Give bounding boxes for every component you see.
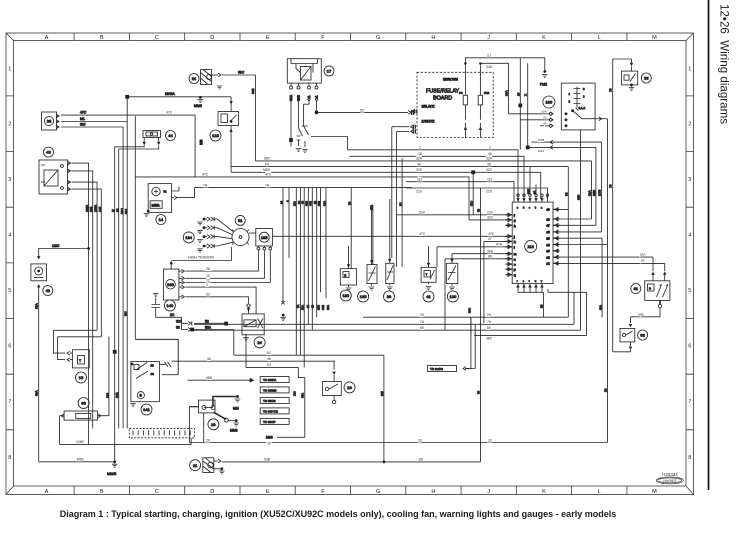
frame left numbers — [8, 67, 11, 462]
component 123 oil pressure switch — [210, 97, 239, 173]
svg-text:T: T — [426, 273, 428, 277]
svg-text:3: 3 — [688, 177, 691, 183]
vertical pack wire 36A — [322, 188, 326, 298]
junction square C2 — [200, 140, 203, 146]
wire from 44 left drop — [115, 145, 145, 147]
vertical wire 32B — [369, 205, 373, 265]
wire 32 row to relay 24 — [186, 293, 249, 304]
svg-text:2: 2 — [583, 95, 585, 99]
wire 32J from 38 — [61, 123, 123, 127]
svg-text:20: 20 — [418, 438, 422, 442]
svg-text:65A: 65A — [301, 393, 305, 398]
svg-text:112: 112 — [528, 244, 535, 249]
oil pressure sender 41 — [421, 246, 436, 302]
svg-text:47B: 47B — [309, 201, 313, 206]
ground MMS — [107, 460, 117, 475]
wire 30E to cluster — [526, 167, 530, 194]
svg-text:112: 112 — [417, 178, 423, 182]
wire 2 row to relay 24 — [186, 283, 257, 314]
svg-text:47: 47 — [488, 237, 492, 241]
svg-text:v: v — [541, 280, 543, 283]
svg-text:69A: 69A — [301, 305, 305, 310]
svg-text:36B: 36B — [321, 305, 325, 310]
svg-text:2: 2 — [8, 122, 11, 128]
svg-text:20: 20 — [206, 438, 210, 442]
svg-text:F6: F6 — [459, 91, 463, 95]
svg-text:k: k — [514, 240, 516, 244]
svg-text:12S: 12S — [105, 393, 109, 398]
wire 47C feed to switch 141 — [135, 339, 178, 374]
wire cluster pin a4 net 28 — [560, 119, 608, 443]
wire 75 — [609, 59, 613, 352]
svg-text:69: 69 — [265, 162, 269, 166]
svg-text:H24334: H24334 — [662, 472, 678, 477]
frame bottom letters — [45, 489, 658, 495]
svg-text:1/WHITE: 1/WHITE — [422, 119, 435, 123]
wire 126J — [39, 244, 90, 256]
svg-text:32: 32 — [206, 293, 210, 297]
wire 2J — [465, 53, 520, 62]
svg-text:03B: 03B — [264, 458, 271, 462]
wire cluster bottom bracket — [518, 289, 587, 336]
svg-text:L: L — [598, 489, 601, 495]
svg-text:224: 224 — [419, 211, 425, 215]
fuse/relay board dashed box — [417, 72, 493, 137]
svg-text:133: 133 — [293, 391, 297, 396]
svg-text:J: J — [487, 489, 490, 495]
wire X vertical to ignition switch — [524, 63, 553, 146]
wire MHSA — [125, 92, 231, 108]
svg-text:d: d — [523, 205, 525, 209]
svg-text:32C: 32C — [416, 168, 423, 172]
svg-text:135: 135 — [89, 207, 93, 212]
svg-text:2A: 2A — [206, 267, 211, 271]
svg-text:140: 140 — [167, 303, 174, 308]
relay 24 — [242, 304, 265, 348]
bus wire ME9/32C — [231, 168, 541, 199]
svg-text:TD 36/YC2: TD 36/YC2 — [263, 410, 278, 414]
svg-text:52A: 52A — [205, 326, 212, 330]
svg-text:32J: 32J — [124, 311, 128, 316]
svg-text:17: 17 — [327, 69, 332, 74]
wire module pin1 — [216, 250, 258, 271]
wire 1/WHITE connector lower — [397, 129, 416, 267]
svg-text:6: 6 — [688, 344, 691, 350]
svg-text:MM: MM — [233, 406, 239, 410]
component 140 condenser — [152, 294, 182, 318]
svg-text:5: 5 — [688, 288, 691, 294]
svg-text:8: 8 — [688, 455, 691, 461]
svg-text:9A: 9A — [532, 190, 536, 194]
svg-text:L: L — [598, 35, 601, 41]
wire 2J vertical to ignition switch — [516, 58, 553, 150]
wire 2/BLACK connector — [412, 109, 417, 113]
wire relay 17 pin4 to net 52 — [315, 101, 319, 114]
wire 29 bus labels row — [465, 317, 471, 368]
svg-text:M13: M13 — [592, 190, 596, 196]
bus wire 38C — [467, 308, 586, 341]
svg-text:32H: 32H — [577, 195, 581, 200]
distributor cap 163 — [163, 269, 184, 300]
svg-text:20: 20 — [211, 422, 216, 427]
svg-text:33: 33 — [644, 76, 649, 81]
svg-text:H: H — [431, 35, 435, 41]
svg-text:86: 86 — [488, 255, 492, 259]
svg-text:M50: M50 — [77, 458, 84, 462]
svg-text:68: 68 — [306, 304, 310, 308]
svg-text:A: A — [45, 35, 49, 41]
wire cluster pin a7 — [560, 224, 596, 226]
svg-text:33A: 33A — [486, 65, 493, 69]
wire 65 — [560, 258, 667, 280]
svg-text:38: 38 — [487, 162, 491, 166]
vertical labels M 32 32J — [111, 208, 128, 214]
svg-text:MHSA: MHSA — [165, 92, 176, 96]
wire relay 17 pin3 contact — [302, 101, 309, 153]
svg-text:32J: 32J — [176, 319, 182, 323]
svg-text:G: G — [376, 489, 380, 495]
multi-plug connector strip — [129, 428, 194, 437]
svg-text:123: 123 — [212, 133, 219, 138]
distributor 51 — [232, 215, 249, 245]
wire module pin2 — [216, 250, 264, 278]
svg-text:43: 43 — [46, 150, 51, 155]
wire 33A — [480, 63, 508, 69]
page edge rule — [708, 0, 710, 490]
svg-text:46: 46 — [488, 152, 492, 156]
fuse F10 — [478, 63, 489, 138]
svg-text:7: 7 — [8, 399, 11, 405]
svg-text:20: 20 — [488, 438, 492, 442]
bus wire 22S — [406, 188, 548, 199]
wire cluster pin a5 — [560, 238, 603, 317]
svg-text:30E: 30E — [526, 189, 530, 194]
wire 43 pin2 — [72, 171, 94, 429]
svg-text:41: 41 — [426, 294, 431, 299]
wire 47A to cluster — [437, 243, 506, 267]
svg-text:SHA: SHA — [115, 392, 119, 398]
wire 9A to cluster — [532, 185, 536, 195]
wire 47C vertical segment — [134, 116, 136, 339]
svg-text:3: 3 — [569, 100, 571, 104]
svg-text:47C: 47C — [265, 173, 272, 177]
oil level indicator 81 — [631, 281, 670, 301]
svg-text:126E: 126E — [76, 440, 85, 444]
vertical pack wire 36B — [317, 188, 321, 292]
svg-text:D: D — [210, 489, 214, 495]
wire 86 to cluster — [445, 255, 506, 331]
svg-text:69: 69 — [420, 326, 424, 330]
svg-text:32A: 32A — [486, 157, 493, 161]
svg-text:29: 29 — [540, 304, 544, 308]
vertical pack wire 47B — [309, 188, 313, 330]
svg-text:B: B — [140, 394, 143, 398]
svg-text:96: 96 — [81, 401, 86, 406]
coolant level sender 130 — [446, 254, 458, 302]
svg-text:5: 5 — [8, 288, 11, 294]
svg-text:W1A: W1A — [289, 95, 293, 101]
frame top band dividers — [74, 33, 627, 41]
svg-text:2J: 2J — [516, 92, 520, 96]
ignition coil 14 — [144, 184, 179, 225]
svg-text:24: 24 — [257, 340, 262, 345]
fuse F6 — [459, 63, 468, 138]
brake fluid switch 19 — [322, 361, 355, 403]
svg-text:186: 186 — [546, 100, 553, 105]
svg-text:21: 21 — [193, 463, 198, 468]
wire 32J vertical drop — [122, 127, 124, 428]
svg-text:32J: 32J — [80, 123, 86, 127]
frame right band dividers — [686, 96, 694, 430]
svg-text:38C: 38C — [467, 308, 471, 313]
svg-text:38: 38 — [417, 162, 421, 166]
svg-text:MEG.: MEG. — [152, 203, 161, 207]
HT lead 1 — [197, 217, 233, 232]
svg-text:36E: 36E — [487, 250, 494, 254]
handbrake switch 92 — [613, 328, 648, 351]
vertical pack wire 133 — [293, 188, 297, 396]
svg-text:M68: M68 — [266, 436, 273, 440]
svg-text:MMS: MMS — [194, 104, 203, 108]
vertical pack wire 69B — [305, 188, 309, 324]
component 96 fuse — [60, 337, 109, 445]
bus wire 69C/32A — [256, 157, 592, 161]
wire 36B drop — [380, 355, 384, 462]
svg-text:365: 365 — [380, 391, 384, 396]
svg-text:22S: 22S — [416, 190, 423, 194]
svg-text:4: 4 — [8, 233, 11, 239]
ignition module 185 — [249, 229, 272, 251]
component 43 relay — [39, 147, 71, 194]
svg-text:0: 0 — [583, 87, 585, 91]
coolant temp sender 39 — [384, 158, 403, 302]
vertical pack wire 69a — [301, 188, 305, 398]
svg-text:q: q — [514, 274, 516, 277]
svg-text:a3: a3 — [547, 249, 550, 253]
instrument cluster 112 — [512, 202, 553, 284]
HIGH TENSION king lead — [170, 247, 232, 269]
svg-text:32C: 32C — [486, 168, 493, 172]
svg-text:38C: 38C — [486, 337, 493, 341]
svg-text:B: B — [344, 273, 346, 277]
wire 46 lower row — [172, 357, 335, 361]
TD plate 31/JP — [260, 418, 289, 424]
wire 47 to cluster — [484, 237, 506, 323]
svg-text:36A: 36A — [326, 305, 330, 310]
bus wire 112 — [406, 178, 514, 203]
svg-text:38: 38 — [565, 192, 569, 196]
svg-text:51: 51 — [164, 190, 168, 194]
interior light switch 33 — [613, 59, 652, 91]
svg-text:7: 7 — [688, 399, 691, 405]
cluster right pins — [547, 208, 560, 266]
svg-text:58: 58 — [477, 390, 481, 394]
wire 2A row — [186, 267, 217, 271]
svg-text:h: h — [514, 224, 516, 228]
wire net 2 elbow — [311, 137, 347, 150]
svg-text:G: G — [376, 35, 380, 41]
svg-text:H: H — [431, 489, 435, 495]
wire 12 row — [186, 278, 217, 282]
svg-text:M13: M13 — [538, 149, 544, 153]
svg-text:Diagram 1 : Typical starting,: Diagram 1 : Typical starting, charging, … — [60, 509, 616, 519]
component 38 connector — [42, 112, 60, 130]
svg-text:F: F — [321, 35, 325, 41]
svg-text:36B: 36B — [317, 201, 321, 206]
frame inner border — [14, 41, 687, 487]
wire 7A — [176, 183, 412, 197]
svg-text:224: 224 — [487, 211, 493, 215]
svg-text:33A: 33A — [505, 90, 509, 96]
svg-text:46: 46 — [267, 357, 271, 361]
frame left band dividers — [6, 96, 14, 430]
wire 36E to cluster — [452, 250, 506, 254]
wire 32H from ignition switch — [577, 130, 581, 330]
svg-text:D: D — [210, 35, 214, 41]
wire relay 17 pin2 contact — [296, 101, 303, 152]
svg-text:C: C — [155, 489, 159, 495]
svg-text:58: 58 — [477, 208, 481, 212]
svg-text:B: B — [100, 35, 104, 41]
svg-text:32C: 32C — [487, 216, 494, 220]
svg-text:126J: 126J — [52, 244, 60, 248]
component 44 switch — [143, 131, 176, 146]
vertical pack wire 34 — [279, 188, 286, 320]
svg-text:o: o — [514, 264, 516, 267]
svg-text:52: 52 — [360, 109, 364, 113]
svg-text:42: 42 — [46, 288, 51, 293]
svg-text:9A: 9A — [296, 304, 300, 308]
svg-text:85A: 85A — [35, 303, 39, 309]
svg-text:9B: 9B — [348, 201, 352, 205]
svg-text:30: 30 — [151, 372, 155, 376]
bus wire 2 — [347, 146, 518, 199]
bus wire 85 — [222, 188, 481, 463]
svg-text:32: 32 — [543, 116, 547, 120]
svg-text:4: 4 — [688, 233, 691, 239]
wire S2 lower row — [246, 334, 305, 437]
svg-text:1: 1 — [688, 67, 691, 73]
relay 17 — [287, 59, 334, 101]
wire M68 — [266, 436, 305, 440]
svg-text:47C: 47C — [202, 173, 209, 177]
svg-text:8: 8 — [8, 455, 11, 461]
svg-text:32J: 32J — [124, 209, 128, 214]
svg-text:65A: 65A — [640, 253, 646, 257]
svg-text:29: 29 — [487, 313, 491, 317]
wire 69C from horn — [222, 71, 256, 75]
vertical pack mid labels — [296, 304, 330, 310]
component 20 starter motor — [189, 395, 240, 442]
svg-text:7A: 7A — [487, 320, 492, 324]
wire M13 — [526, 146, 596, 226]
node MHSA vertical — [126, 97, 128, 429]
svg-text:44: 44 — [168, 133, 173, 138]
svg-text:21S: 21S — [316, 305, 320, 310]
svg-text:2/BLACK: 2/BLACK — [422, 104, 436, 108]
wire M1 vertical drop — [113, 147, 117, 462]
svg-text:33A: 33A — [541, 110, 547, 114]
svg-text:47C: 47C — [80, 111, 87, 115]
svg-text:a1: a1 — [547, 262, 550, 266]
svg-text:A: A — [45, 489, 49, 495]
svg-text:TD 36/HA: TD 36/HA — [263, 378, 276, 382]
diagnostic plate TD 2u/D8 — [427, 324, 475, 371]
svg-text:BOARD: BOARD — [433, 96, 452, 102]
wire module pin3 — [216, 250, 270, 283]
wire 46B — [188, 376, 254, 382]
svg-text:1: 1 — [569, 92, 571, 96]
svg-text:7A: 7A — [265, 183, 270, 187]
component 134 — [183, 232, 194, 243]
svg-text:r: r — [517, 279, 518, 283]
wire labels left verticals — [105, 311, 127, 398]
wire relay 17 pin1 — [289, 101, 293, 147]
svg-text:FUSE/RELAY: FUSE/RELAY — [426, 89, 460, 95]
svg-text:1A: 1A — [307, 95, 311, 99]
bus wire 69/38 — [231, 162, 568, 166]
bus wire 46 — [350, 152, 525, 199]
wire 43 pin4 — [58, 189, 102, 360]
svg-text:TD 56/JS: TD 56/JS — [263, 399, 276, 403]
svg-text:58: 58 — [151, 363, 155, 367]
wire PM2 feed — [520, 58, 547, 87]
svg-text:a5: a5 — [547, 237, 550, 241]
svg-text:32: 32 — [176, 326, 180, 330]
wire 47C from 38 — [61, 111, 195, 177]
svg-text:K: K — [542, 489, 546, 495]
svg-text:B: B — [100, 489, 104, 495]
svg-text:MM3: MM3 — [230, 429, 238, 433]
wire 32 to 52A connector — [176, 323, 234, 331]
TD plate 36/HA — [260, 377, 289, 383]
wire 52 lower row — [234, 330, 384, 356]
svg-text:F: F — [321, 489, 325, 495]
svg-text:n: n — [514, 258, 516, 261]
svg-text:a6: a6 — [547, 230, 550, 234]
svg-text:T: T — [79, 359, 81, 363]
battery 42 — [31, 256, 53, 295]
svg-text:W1B: W1B — [297, 95, 301, 101]
svg-text:c: c — [529, 206, 531, 209]
svg-text:47C: 47C — [166, 111, 173, 115]
svg-text:2J: 2J — [487, 53, 491, 57]
svg-text:m: m — [514, 253, 516, 256]
cluster left pins — [506, 213, 517, 277]
svg-text:47C: 47C — [419, 232, 426, 236]
svg-text:65: 65 — [641, 258, 645, 262]
svg-text:TD 2u/D8: TD 2u/D8 — [430, 367, 443, 371]
wire 13 row — [186, 274, 217, 278]
TD plate 36/YC2 — [260, 408, 289, 414]
svg-text:1A: 1A — [315, 95, 319, 99]
svg-text:2: 2 — [206, 283, 208, 287]
TD plate 56/JS — [260, 397, 289, 403]
svg-text:X: X — [524, 94, 528, 96]
svg-text:a7: a7 — [547, 224, 550, 228]
vertical wire 9B — [348, 188, 352, 269]
svg-text:M7B: M7B — [598, 190, 602, 196]
svg-text:125: 125 — [98, 207, 102, 212]
svg-text:32: 32 — [115, 208, 119, 212]
svg-text:HAYNES: HAYNES — [663, 479, 677, 483]
svg-text:163: 163 — [167, 282, 174, 287]
wire cluster pin a9 — [560, 167, 569, 318]
svg-text:p: p — [514, 269, 516, 272]
wire ignition switch output — [595, 117, 607, 121]
wire cluster pin a8 — [560, 161, 592, 219]
svg-text:141: 141 — [143, 407, 150, 412]
